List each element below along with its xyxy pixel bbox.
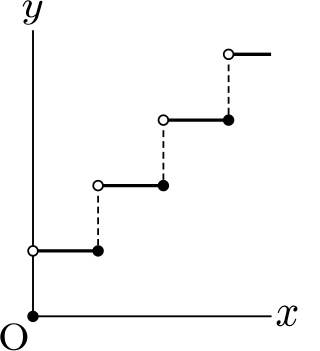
dashed connector 1: [97, 196, 99, 245]
label x: [277, 305, 298, 326]
step segment 1: [33, 249, 98, 252]
y-axis: [32, 30, 34, 316]
step segment 4: [229, 53, 272, 56]
label y: [23, 0, 43, 25]
filled endpoint dot 3: [223, 114, 234, 125]
x-axis: [33, 315, 272, 317]
filled endpoint dot 2: [158, 180, 169, 191]
open endpoint circle 4: [224, 49, 234, 59]
open endpoint circle 3: [159, 115, 169, 125]
open endpoint circle 1: [28, 246, 38, 256]
origin dot: [27, 311, 38, 322]
step segment 2: [98, 184, 163, 187]
dashed connector 3: [228, 65, 230, 115]
label O: [0, 323, 27, 350]
open endpoint circle 2: [93, 181, 103, 191]
step segment 3: [163, 118, 228, 121]
dashed connector 2: [162, 130, 164, 180]
filled endpoint dot 1: [92, 245, 103, 256]
